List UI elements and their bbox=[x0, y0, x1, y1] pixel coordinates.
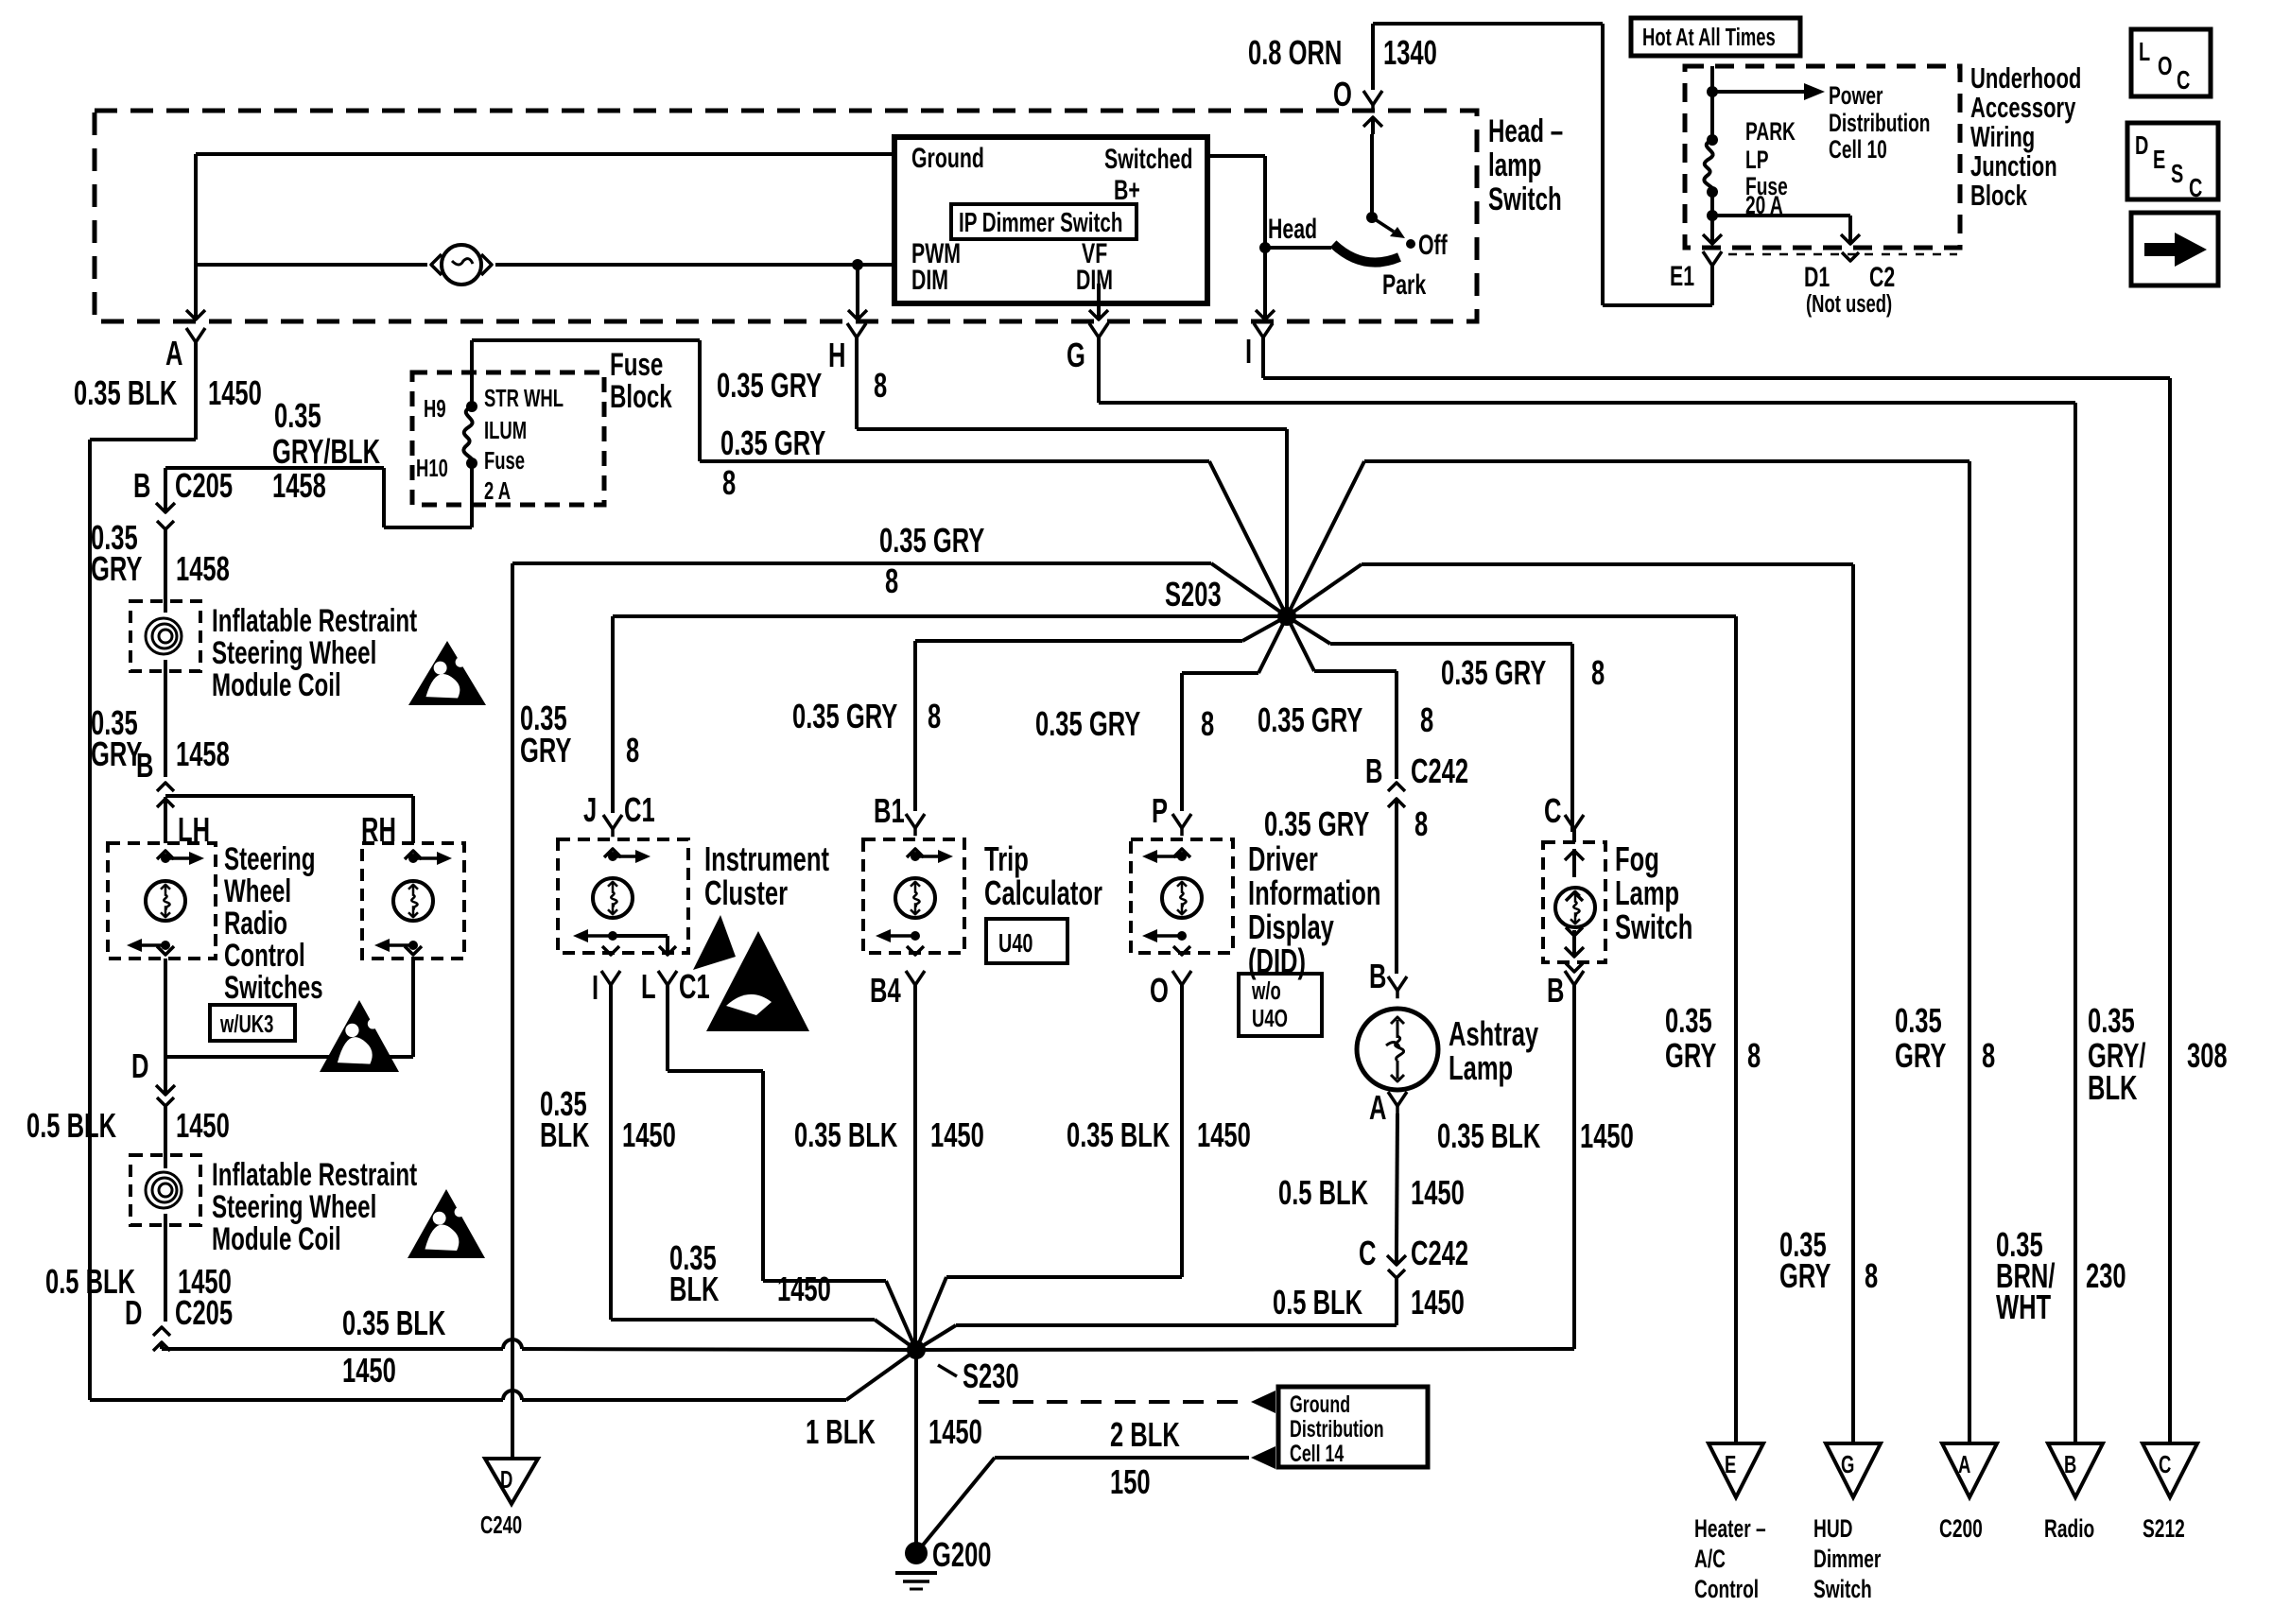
svg-text:G: G bbox=[1067, 337, 1085, 374]
label 0.35 GRY 1458 lower bbox=[91, 704, 230, 773]
wire S203 to C200 reference A bbox=[1287, 461, 1969, 1443]
wire C242 B to ashtray bbox=[1395, 799, 1398, 974]
svg-text:Distribution: Distribution bbox=[1290, 1415, 1384, 1443]
svg-text:0.5 BLK: 0.5 BLK bbox=[1273, 1284, 1362, 1322]
label Instrument Cluster bbox=[704, 840, 829, 912]
wire H to S203 bbox=[857, 352, 1287, 616]
warning triangle 1 bbox=[408, 641, 486, 705]
label 0.35 BLK 1450 main run bbox=[342, 1304, 446, 1390]
svg-text:0.35 BLK: 0.35 BLK bbox=[342, 1304, 446, 1342]
label 0.35 GRY 8 cluster branch bbox=[520, 700, 639, 769]
svg-text:w/UK3: w/UK3 bbox=[219, 1011, 273, 1038]
svg-text:8: 8 bbox=[1591, 654, 1605, 692]
svg-text:O: O bbox=[1150, 972, 1169, 1010]
connector I L C1 cluster bottom bbox=[592, 968, 710, 1007]
label 2 BLK 150 bbox=[1110, 1416, 1180, 1501]
svg-text:0.35 GRY: 0.35 GRY bbox=[792, 698, 897, 735]
ground G200 bbox=[895, 1536, 992, 1589]
wire S203 to fog lamp switch bbox=[1287, 616, 1572, 832]
svg-text:Information: Information bbox=[1248, 874, 1380, 912]
ground distribution cell 14 box bbox=[1278, 1387, 1428, 1467]
svg-text:Ground: Ground bbox=[1290, 1391, 1350, 1418]
label C200 bbox=[1939, 1514, 1983, 1543]
splice S203 bbox=[1165, 576, 1296, 626]
dashed wire S230 to ground distribution bbox=[979, 1391, 1275, 1413]
svg-text:2 A: 2 A bbox=[484, 477, 511, 505]
wire coil lower to D C205 bbox=[164, 1214, 167, 1322]
wire I pin to S212 reference C bbox=[1263, 352, 2170, 1443]
label 0.35 BLK 1450 bbox=[74, 374, 262, 412]
label 0.35 GRY 8 C242 branch bbox=[1258, 701, 1433, 739]
svg-text:1450: 1450 bbox=[622, 1116, 676, 1154]
svg-text:S230: S230 bbox=[963, 1357, 1019, 1395]
svg-text:1450: 1450 bbox=[777, 1270, 831, 1308]
svg-text:BLK: BLK bbox=[2088, 1069, 2138, 1107]
svg-text:150: 150 bbox=[1110, 1463, 1151, 1501]
connector B4 bbox=[870, 971, 925, 1010]
label Trip Calculator bbox=[984, 840, 1102, 912]
svg-text:0.35 BLK: 0.35 BLK bbox=[794, 1116, 898, 1154]
svg-text:1458: 1458 bbox=[272, 467, 326, 505]
w/UK3 option box bbox=[210, 1005, 295, 1041]
underhood junction block dashed enclosure bbox=[1685, 66, 1960, 248]
svg-text:Wiring: Wiring bbox=[1970, 120, 2035, 153]
power distribution arrow reference bbox=[1712, 81, 1931, 164]
wire cluster L to S230 bbox=[668, 985, 916, 1350]
svg-text:C200: C200 bbox=[1939, 1514, 1983, 1543]
instrument cluster bbox=[558, 839, 688, 955]
svg-text:Distribution: Distribution bbox=[1829, 109, 1931, 137]
illumination lamp symbol bbox=[431, 245, 492, 285]
wire A to ground run bbox=[90, 342, 196, 1400]
svg-text:A: A bbox=[1369, 1089, 1386, 1127]
svg-text:1450: 1450 bbox=[1411, 1284, 1465, 1322]
wire S203 to heater AC reference E bbox=[1287, 616, 1736, 1443]
svg-text:IP Dimmer Switch: IP Dimmer Switch bbox=[959, 208, 1122, 238]
svg-text:0.35 GRY: 0.35 GRY bbox=[879, 522, 984, 560]
wire hot feed into block bbox=[1707, 66, 1718, 140]
svg-text:0.35 BLK: 0.35 BLK bbox=[1067, 1116, 1171, 1154]
label 0.35 GRY 8 fuse wire bbox=[720, 424, 825, 502]
steering wheel radio control switch LH bbox=[108, 843, 216, 959]
svg-text:C: C bbox=[1359, 1235, 1376, 1272]
svg-text:Calculator: Calculator bbox=[984, 874, 1102, 912]
label 0.35 GRY 8 at H bbox=[717, 367, 887, 405]
svg-text:Steering: Steering bbox=[224, 841, 316, 877]
connector B C205 bbox=[133, 467, 326, 529]
svg-text:Inflatable Restraint: Inflatable Restraint bbox=[212, 603, 417, 639]
wire switch common to O bbox=[1363, 117, 1382, 217]
svg-text:Lamp: Lamp bbox=[1449, 1049, 1513, 1087]
svg-text:0.35 GRY: 0.35 GRY bbox=[1035, 705, 1140, 743]
connector H bbox=[828, 323, 866, 374]
connector A bbox=[165, 328, 205, 372]
svg-text:D: D bbox=[500, 1466, 512, 1494]
connector A ashtray bbox=[1369, 1089, 1407, 1127]
svg-text:L: L bbox=[2139, 38, 2150, 67]
svg-text:J: J bbox=[583, 791, 597, 829]
svg-text:0.5 BLK: 0.5 BLK bbox=[26, 1107, 116, 1145]
headlamp switch dashed enclosure bbox=[95, 111, 1477, 321]
svg-text:PARK: PARK bbox=[1745, 117, 1796, 146]
U40 option box bbox=[986, 919, 1067, 963]
svg-text:C242: C242 bbox=[1411, 1235, 1468, 1272]
svg-text:I: I bbox=[1245, 333, 1252, 371]
wire B to LH switch and RH branch bbox=[165, 796, 413, 843]
connector C2 D1 not used bbox=[1728, 252, 1957, 318]
svg-text:L: L bbox=[641, 968, 656, 1006]
connector C fog lamp bbox=[1544, 792, 1584, 838]
svg-text:1450: 1450 bbox=[930, 1116, 984, 1154]
svg-text:Accessory: Accessory bbox=[1970, 91, 2075, 124]
svg-text:U40: U40 bbox=[998, 929, 1032, 959]
warning triangle 2 bbox=[320, 1000, 399, 1072]
driver information display bbox=[1131, 839, 1233, 955]
svg-text:S203: S203 bbox=[1165, 576, 1222, 613]
svg-text:Control: Control bbox=[224, 938, 305, 974]
svg-text:GRY/BLK: GRY/BLK bbox=[272, 433, 380, 471]
svg-text:Switch: Switch bbox=[1813, 1575, 1872, 1603]
svg-text:E: E bbox=[1725, 1451, 1736, 1478]
fuse PARK LP 20A bbox=[1704, 117, 1796, 219]
svg-text:P: P bbox=[1152, 792, 1168, 830]
svg-text:D1: D1 bbox=[1804, 260, 1830, 293]
label 0.35 GRY 8 trip branch bbox=[792, 698, 941, 735]
fuse block dashed enclosure bbox=[412, 372, 604, 505]
label 0.35 GRY 8 DID branch bbox=[1035, 705, 1214, 743]
svg-text:Fuse: Fuse bbox=[484, 447, 525, 475]
wire S203 to DID P bbox=[1182, 616, 1287, 811]
svg-text:0.5 BLK: 0.5 BLK bbox=[45, 1263, 135, 1301]
svg-text:Junction: Junction bbox=[1970, 149, 2057, 182]
connector I bbox=[1245, 323, 1273, 371]
svg-text:Module Coil: Module Coil bbox=[212, 667, 341, 703]
svg-text:GRY: GRY bbox=[1665, 1037, 1717, 1075]
svg-text:DIM: DIM bbox=[1076, 263, 1113, 296]
svg-text:B: B bbox=[1369, 958, 1386, 995]
svg-text:8: 8 bbox=[722, 464, 736, 502]
svg-text:C: C bbox=[2177, 66, 2190, 95]
svg-text:1450: 1450 bbox=[928, 1413, 982, 1451]
svg-text:8: 8 bbox=[1982, 1037, 1995, 1075]
wire fuse H9 to S203 bbox=[472, 340, 1287, 616]
label 0.35 BLK 1450 cluster L bbox=[669, 1239, 831, 1308]
svg-text:Instrument: Instrument bbox=[704, 840, 829, 878]
triangle connector G HUD bbox=[1826, 1443, 1881, 1497]
svg-text:8: 8 bbox=[885, 562, 898, 600]
connector E1 bbox=[1670, 251, 1722, 292]
trip calculator bbox=[863, 839, 964, 955]
wire VF DIM to G bbox=[1089, 284, 1108, 320]
wire left ground run to S230 bbox=[90, 1350, 916, 1400]
svg-text:B: B bbox=[2064, 1451, 2076, 1478]
connector B ashtray bbox=[1369, 958, 1407, 999]
wire Switched B+ to headlamp switch contact bbox=[1207, 156, 1275, 320]
svg-text:Off: Off bbox=[1418, 228, 1448, 261]
svg-text:Fog: Fog bbox=[1615, 840, 1659, 878]
svg-text:Hot At All Times: Hot At All Times bbox=[1642, 24, 1776, 51]
svg-text:C240: C240 bbox=[480, 1512, 522, 1539]
wire trip B4 to S230 bbox=[913, 985, 917, 1350]
svg-text:1450: 1450 bbox=[1411, 1174, 1465, 1212]
label 0.5 BLK 1450 below C242 C bbox=[1273, 1284, 1465, 1322]
svg-text:Inflatable Restraint: Inflatable Restraint bbox=[212, 1157, 417, 1193]
label Head-lamp Switch bbox=[1488, 113, 1563, 217]
warning triangle 3 bbox=[408, 1189, 485, 1258]
label 0.35 GRY 8 C240 branch bbox=[879, 522, 984, 600]
svg-text:C1: C1 bbox=[624, 791, 655, 829]
wire LH bottom to D bbox=[164, 959, 167, 1074]
label inflatable restraint coil upper bbox=[212, 603, 417, 703]
inflatable restraint steering wheel module coil lower bbox=[130, 1155, 200, 1225]
connector D C205 bbox=[125, 1294, 233, 1351]
svg-text:Fuse: Fuse bbox=[610, 347, 663, 383]
label steering wheel radio control switches bbox=[224, 841, 323, 1006]
svg-text:GRY: GRY bbox=[91, 550, 143, 588]
svg-text:1458: 1458 bbox=[176, 735, 230, 773]
wire DID O to S230 bbox=[916, 985, 1182, 1350]
DESC reference box bbox=[2127, 123, 2218, 203]
wire 1 BLK 1450 to G200 bbox=[914, 1350, 918, 1553]
svg-text:Display: Display bbox=[1248, 908, 1334, 946]
svg-text:230: 230 bbox=[2086, 1257, 2126, 1295]
fog lamp switch bbox=[1543, 829, 1605, 972]
svg-text:HUD: HUD bbox=[1813, 1514, 1853, 1543]
wire C240 drop bbox=[511, 563, 514, 1459]
svg-text:Heater –: Heater – bbox=[1694, 1514, 1766, 1543]
wire O to E1 feed 0.8 ORN 1340 bbox=[1373, 24, 1712, 305]
svg-text:Head –: Head – bbox=[1488, 113, 1563, 149]
svg-text:C2: C2 bbox=[1869, 260, 1895, 293]
svg-text:Dimmer: Dimmer bbox=[1813, 1545, 1881, 1573]
wire fuse H10 to B C205 bbox=[165, 463, 472, 527]
svg-text:Control: Control bbox=[1694, 1575, 1759, 1603]
wire S203 to HUD dimmer reference G bbox=[1287, 564, 1853, 1443]
wire A drop bbox=[186, 154, 205, 320]
label HUD Dimmer Switch bbox=[1813, 1514, 1881, 1603]
label Radio bbox=[2044, 1514, 2094, 1543]
svg-text:C205: C205 bbox=[175, 1294, 233, 1332]
wire S203 to trip calculator B1 bbox=[915, 616, 1287, 811]
svg-text:1 BLK: 1 BLK bbox=[806, 1413, 876, 1451]
wire ground line inside headlamp switch bbox=[196, 152, 894, 156]
wire S203 to C240 drop bbox=[512, 563, 1287, 616]
svg-text:B: B bbox=[1365, 752, 1382, 790]
svg-text:8: 8 bbox=[1201, 705, 1214, 743]
svg-text:1450: 1450 bbox=[342, 1352, 396, 1390]
connector O DID bbox=[1150, 971, 1191, 1010]
svg-text:GRY: GRY bbox=[1779, 1257, 1831, 1295]
label S212 bbox=[2143, 1514, 2185, 1543]
svg-text:D: D bbox=[125, 1294, 142, 1332]
svg-text:B+: B+ bbox=[1114, 173, 1140, 206]
wire dim lamp line bbox=[196, 259, 894, 270]
triangle connector B radio bbox=[2048, 1443, 2103, 1497]
svg-text:O: O bbox=[1333, 76, 1352, 113]
wire cluster I to S230 bbox=[611, 985, 916, 1350]
label 0.35 BLK 1450 trip bbox=[794, 1116, 984, 1154]
svg-text:8: 8 bbox=[1414, 805, 1428, 843]
label 0.35 GRY 8 below C242 bbox=[1264, 805, 1428, 843]
svg-text:1450: 1450 bbox=[208, 374, 262, 412]
svg-text:1340: 1340 bbox=[1383, 34, 1437, 72]
connector B C242 bbox=[1365, 752, 1468, 807]
label Fog Lamp Switch bbox=[1615, 840, 1692, 946]
svg-text:C: C bbox=[1544, 792, 1561, 830]
ESD warning triangle bbox=[693, 915, 809, 1031]
w/o U4O option box bbox=[1239, 974, 1322, 1036]
svg-text:1450: 1450 bbox=[1580, 1117, 1634, 1155]
label 0.35 GRY 8 C200 wire bbox=[1895, 1002, 1995, 1075]
label 0.35 BLK 1450 cluster I bbox=[540, 1085, 676, 1154]
svg-text:8: 8 bbox=[928, 698, 941, 735]
connector C C242 bbox=[1359, 1235, 1468, 1278]
svg-text:Radio: Radio bbox=[224, 906, 287, 942]
label 0.35 GRY/BLK bbox=[272, 397, 380, 471]
inflatable restraint steering wheel module coil upper bbox=[130, 601, 200, 671]
svg-text:1450: 1450 bbox=[176, 1107, 230, 1145]
steering wheel radio control switch RH bbox=[362, 843, 464, 959]
svg-text:Cluster: Cluster bbox=[704, 874, 788, 912]
svg-text:Ground: Ground bbox=[911, 141, 984, 174]
wire RH bottom joins main bbox=[165, 959, 413, 1057]
svg-text:C1: C1 bbox=[679, 968, 710, 1006]
svg-text:Switched: Switched bbox=[1104, 142, 1192, 175]
label 0.35 GRY 8 HUD wire bbox=[1779, 1226, 1878, 1295]
svg-text:0.35 GRY: 0.35 GRY bbox=[1264, 805, 1369, 843]
svg-text:Steering Wheel: Steering Wheel bbox=[212, 635, 376, 671]
ashtray lamp bbox=[1357, 1009, 1438, 1090]
svg-text:Driver: Driver bbox=[1248, 840, 1318, 878]
label 0.35 BLK 1450 fog bbox=[1437, 1117, 1634, 1155]
svg-text:S212: S212 bbox=[2143, 1514, 2185, 1543]
svg-text:8: 8 bbox=[1865, 1257, 1878, 1295]
svg-text:D: D bbox=[131, 1047, 148, 1085]
Hot At All Times box bbox=[1631, 18, 1800, 56]
connector B steering wheel bbox=[136, 747, 174, 807]
label Fuse Block bbox=[610, 347, 672, 415]
svg-text:ILUM: ILUM bbox=[484, 417, 527, 444]
label 0.5 BLK 1450 above C242 C bbox=[1278, 1174, 1465, 1212]
svg-text:w/o: w/o bbox=[1251, 977, 1281, 1005]
IP Dimmer Switch box U1 bbox=[894, 137, 1207, 303]
wire B C205 to coil bbox=[164, 529, 167, 613]
label 0.35 GRY/BLK 308 S212 wire bbox=[2088, 1002, 2228, 1107]
label Ashtray Lamp bbox=[1449, 1015, 1539, 1087]
wire D to coil lower bbox=[164, 1106, 167, 1168]
svg-text:H: H bbox=[828, 337, 845, 374]
wire PWM DIM to H bbox=[848, 265, 867, 320]
svg-text:Cell 14: Cell 14 bbox=[1290, 1440, 1344, 1467]
label LH bbox=[178, 811, 210, 849]
svg-text:Park: Park bbox=[1382, 268, 1427, 301]
svg-text:Lamp: Lamp bbox=[1615, 874, 1679, 912]
wire fuse output to E1 and C2 bbox=[1703, 192, 1860, 244]
svg-text:U4O: U4O bbox=[1252, 1005, 1288, 1032]
wire coil to B connector bbox=[164, 660, 167, 777]
wire ashtray A to C242 C bbox=[1397, 1114, 1397, 1248]
label Underhood Accessory Wiring Junction Block bbox=[1970, 61, 2081, 212]
svg-text:308: 308 bbox=[2187, 1037, 2228, 1075]
LOC reference box bbox=[2131, 29, 2211, 96]
svg-text:Block: Block bbox=[1970, 179, 2027, 212]
svg-text:Wheel: Wheel bbox=[224, 873, 291, 909]
label Driver Information Display DID bbox=[1248, 840, 1380, 980]
svg-text:Switch: Switch bbox=[1615, 908, 1692, 946]
svg-text:G200: G200 bbox=[932, 1536, 992, 1574]
svg-text:Trip: Trip bbox=[984, 840, 1029, 878]
svg-text:H9: H9 bbox=[424, 395, 446, 423]
svg-text:Steering Wheel: Steering Wheel bbox=[212, 1189, 376, 1225]
svg-text:WHT: WHT bbox=[1996, 1288, 2051, 1326]
svg-text:LP: LP bbox=[1745, 146, 1768, 174]
svg-text:1450: 1450 bbox=[1197, 1116, 1251, 1154]
wire S203 to C242 B bbox=[1287, 616, 1397, 779]
svg-text:0.35: 0.35 bbox=[1665, 1002, 1712, 1040]
label 0.5 BLK 1450 lower bbox=[45, 1263, 232, 1301]
svg-text:0.35 GRY: 0.35 GRY bbox=[717, 367, 822, 405]
connector P bbox=[1152, 792, 1191, 837]
svg-text:Power: Power bbox=[1829, 81, 1883, 110]
svg-text:0.35: 0.35 bbox=[2088, 1002, 2135, 1040]
label 0.8 ORN 1340 bbox=[1248, 34, 1437, 72]
svg-text:Switch: Switch bbox=[1488, 181, 1562, 217]
connector B fog lamp bbox=[1547, 971, 1584, 1010]
label 0.35 BRN/WHT 230 radio wire bbox=[1996, 1226, 2126, 1326]
wire G pin to radio reference B bbox=[1099, 352, 2075, 1443]
svg-text:Module Coil: Module Coil bbox=[212, 1221, 341, 1257]
svg-text:D: D bbox=[2135, 131, 2148, 161]
svg-text:(Not used): (Not used) bbox=[1806, 290, 1892, 318]
svg-text:8: 8 bbox=[1420, 701, 1433, 739]
svg-text:S: S bbox=[2171, 160, 2183, 189]
svg-text:GRY: GRY bbox=[520, 732, 572, 769]
svg-text:0.35: 0.35 bbox=[274, 397, 321, 435]
svg-text:Ashtray: Ashtray bbox=[1449, 1015, 1539, 1053]
svg-text:Cell 10: Cell 10 bbox=[1829, 135, 1887, 164]
svg-text:0.5 BLK: 0.5 BLK bbox=[1278, 1174, 1368, 1212]
svg-text:lamp: lamp bbox=[1488, 147, 1541, 183]
svg-text:Block: Block bbox=[610, 379, 672, 415]
triangle connector A C200 bbox=[1942, 1443, 1997, 1497]
label RH bbox=[361, 811, 396, 849]
wire C242 C to S230 bbox=[916, 1278, 1397, 1350]
svg-text:A: A bbox=[1958, 1451, 1970, 1478]
svg-text:E: E bbox=[2153, 146, 2165, 175]
svg-text:Radio: Radio bbox=[2044, 1514, 2094, 1543]
svg-text:E1: E1 bbox=[1670, 259, 1694, 292]
wire 2 BLK 150 ground distribution bbox=[916, 1446, 1275, 1553]
label 0.35 GRY 8 fog branch bbox=[1441, 654, 1605, 692]
svg-text:B4: B4 bbox=[870, 972, 901, 1010]
svg-text:I: I bbox=[592, 969, 599, 1007]
label 0.35 GRY 8 heater wire bbox=[1665, 1002, 1761, 1075]
svg-text:BLK: BLK bbox=[540, 1116, 590, 1154]
connector O bbox=[1333, 76, 1382, 113]
connector B1 bbox=[874, 792, 925, 837]
wire fog B to S230 bbox=[916, 985, 1574, 1350]
splice S230 bbox=[907, 1340, 1019, 1395]
svg-text:DIM: DIM bbox=[911, 263, 948, 296]
svg-text:H10: H10 bbox=[416, 455, 448, 482]
connector J C1 bbox=[583, 791, 655, 838]
svg-text:C242: C242 bbox=[1411, 752, 1468, 790]
svg-text:0.35 BLK: 0.35 BLK bbox=[1437, 1117, 1541, 1155]
svg-text:B: B bbox=[1547, 972, 1564, 1010]
svg-text:A: A bbox=[165, 335, 182, 372]
svg-text:Switches: Switches bbox=[224, 970, 323, 1006]
label 0.5 BLK 1450 upper bbox=[26, 1107, 230, 1145]
